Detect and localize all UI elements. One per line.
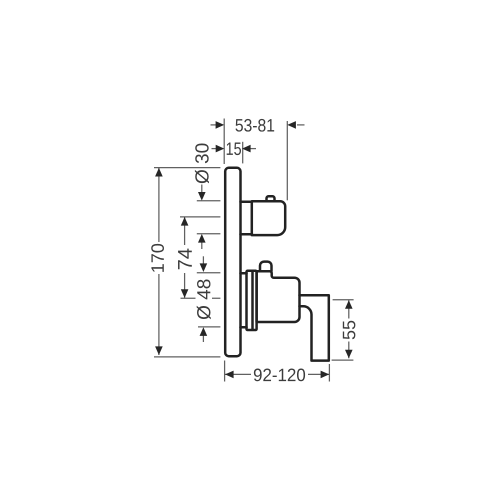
arrow 53-81 right (points left) [287, 121, 296, 129]
ext line knob center (74 top) [180, 216, 220, 218]
dimension line 53-81 tails [211, 124, 218, 126]
arrow 55 bottom (points down) [345, 350, 353, 359]
upper knob neck top line [241, 201, 253, 204]
sleeve inner line [251, 271, 254, 330]
arrow dia30 top (points down) [198, 192, 206, 201]
label 15 [227, 143, 241, 156]
arrow 74 top (points up) [181, 217, 189, 226]
white patches behind in-line texts [150, 242, 357, 384]
dimension line 170 [158, 168, 160, 355]
ext line top of plate (170) [154, 167, 220, 169]
dimension line 92-120 [225, 373, 329, 375]
dim 48 tail above top arrow [202, 256, 204, 264]
arrow 92-120 right (points right) [321, 371, 330, 379]
dimension line 55 [348, 300, 350, 358]
dim 48 tail below bottom arrow [202, 335, 204, 342]
arrow 170 top (points up) [155, 168, 163, 177]
label 92-120 [254, 369, 305, 382]
arrow 92-120 left (points left) [225, 371, 234, 379]
ext line left of 92-120 [224, 361, 226, 382]
ext line top of knob (dia 30) [197, 200, 221, 202]
arrow 15 left (points right) [216, 145, 225, 153]
extension line right of 15 [242, 142, 244, 164]
small button on knob top [267, 196, 275, 201]
label 170 [151, 244, 164, 272]
arrow dia48 top (points down) [200, 263, 208, 272]
arrowheads [155, 121, 353, 378]
ext line top of valve (dia 48) [197, 272, 221, 274]
dimension line 74 [184, 217, 186, 298]
ext line handle top (55) [333, 299, 354, 301]
ext line right of 92-120 [328, 364, 330, 382]
arrow 55 top (points up) [345, 300, 353, 309]
ext line handle bottom (55) [332, 359, 354, 361]
label 53-81 [236, 119, 275, 132]
lower connector stub bottom [241, 326, 247, 329]
dim 30 tail below bottom arrow [201, 242, 203, 249]
lower sleeve (escutcheon ring) [247, 271, 257, 330]
arrow 74 bottom (points down) [181, 289, 189, 298]
ext line valve center (74 bottom) [181, 297, 221, 299]
arrow dia48 bottom (points up) [200, 327, 208, 336]
dimension line 15 tails [212, 148, 218, 150]
ext line bottom of knob (dia 30) [197, 233, 221, 235]
extension line left of 53-81 and 15 [223, 119, 225, 165]
lower connector stub top [241, 272, 247, 275]
button on valve body top [260, 262, 272, 271]
arrow 170 bottom (points down) [155, 346, 163, 355]
ext line bottom of valve (dia 48) [198, 326, 220, 328]
dim 30 vertical line above top arrow [201, 185, 203, 195]
arrow dia30 bottom (points up) [198, 234, 206, 243]
label 55 [343, 321, 356, 340]
thermostat knob body [252, 201, 285, 235]
valve body [257, 271, 300, 322]
label dia 48 [197, 280, 211, 320]
extension line right of 53-81 [286, 121, 288, 200]
ext line bottom of plate (170) [154, 356, 220, 358]
arrow 15 right (points left) [242, 145, 251, 153]
upper knob neck bottom line [241, 233, 253, 236]
lever handle [300, 295, 329, 360]
label dia 30 [195, 144, 209, 184]
label 74 [178, 249, 192, 270]
wall plate (escutcheon side view) [225, 168, 240, 356]
arrow 53-81 left (points right) [216, 121, 225, 129]
